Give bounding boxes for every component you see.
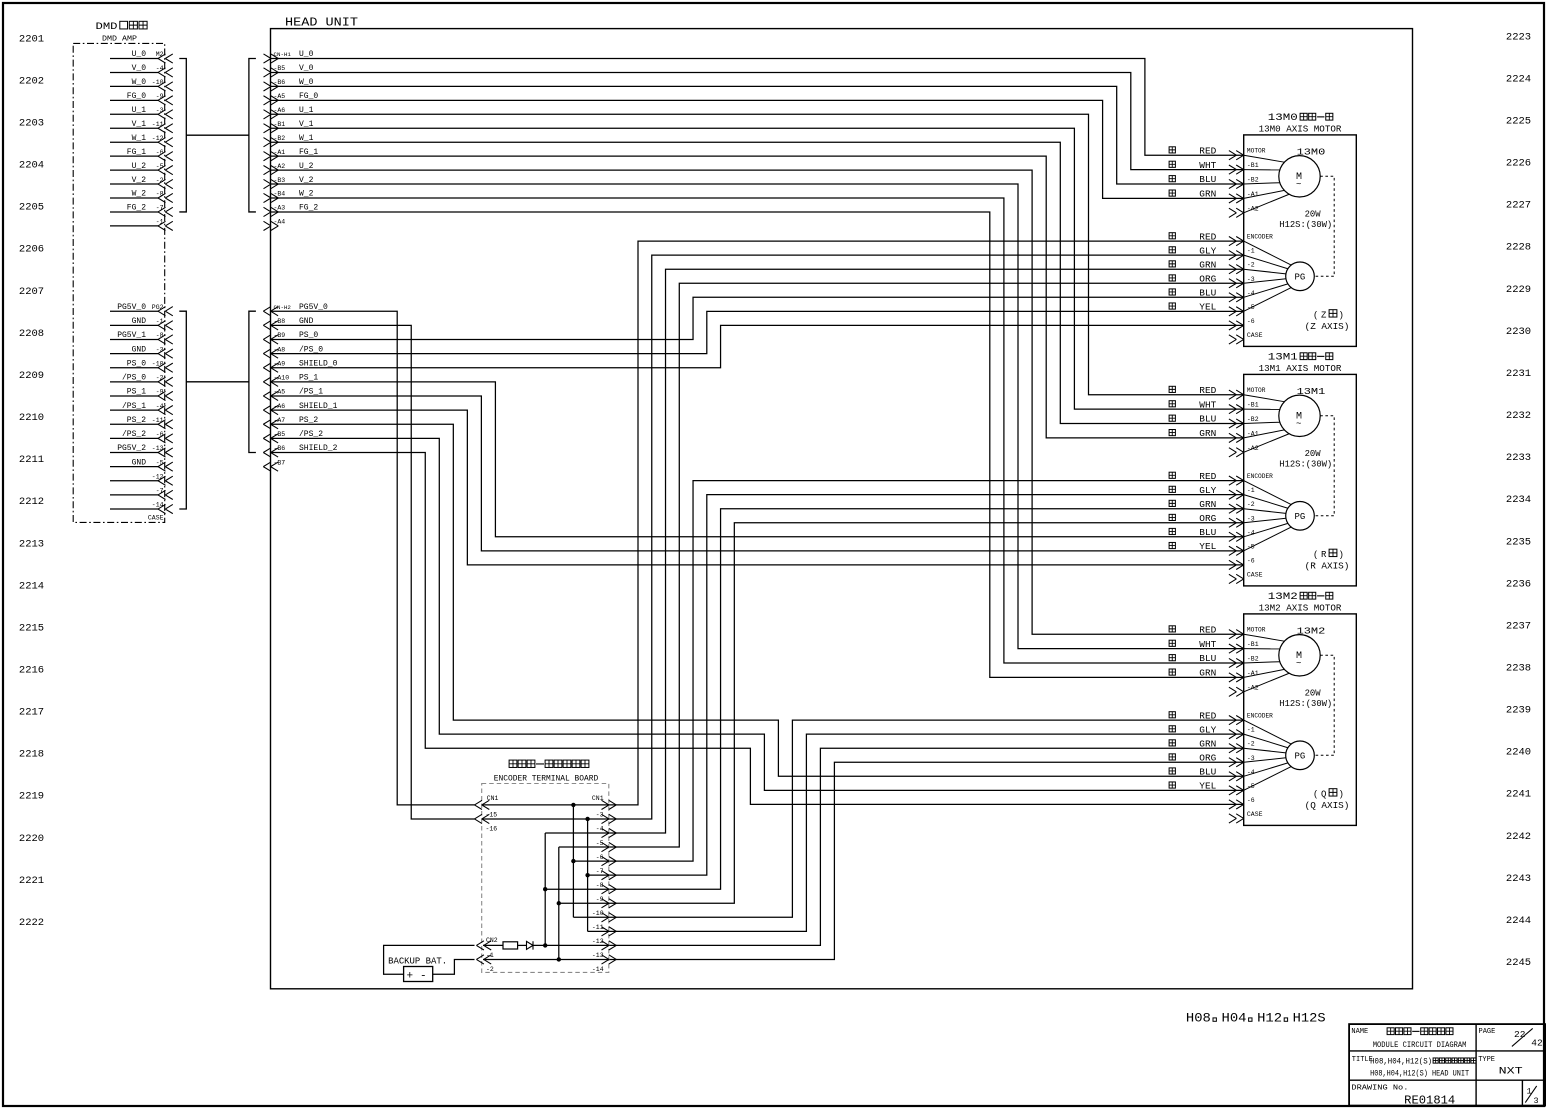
svg-text:W_1: W_1 (299, 134, 314, 143)
svg-text:GND: GND (132, 458, 147, 467)
svg-text:2213: 2213 (19, 538, 44, 550)
DMD AMP pin -14 signal nc wire (110, 508, 158, 510)
wire /PS_1 CN-H2 to motor 13M1 encoder (271, 396, 1244, 551)
svg-text:2204: 2204 (19, 160, 44, 172)
svg-text:-8: -8 (156, 191, 164, 198)
motor 13M2 pin -B1 link (1244, 648, 1280, 650)
wire W_2 CN-H1 to motor 13M2 pin row 2 (271, 198, 1244, 663)
encoder terminal board dashed box (482, 784, 609, 973)
svg-text:CN-H1: CN-H1 (274, 51, 292, 58)
CN-H1 pin -A5 chevron (271, 96, 279, 105)
svg-text:2216: 2216 (19, 665, 44, 677)
wire SHIELD_0 CN-H2 to motor 13M0 encoder (271, 325, 1244, 367)
svg-text:BLU: BLU (1199, 528, 1216, 538)
DMD AMP pin -7 signal nc wire (110, 494, 158, 496)
motor 13M0 encoder pin -5 link (1244, 288, 1292, 312)
svg-text:-13: -13 (152, 445, 164, 452)
svg-text:PG5V_0: PG5V_0 (299, 303, 328, 312)
motor 13M0 pin MOTOR chevron (1236, 151, 1244, 160)
motor 13M0 encoder color kanji 5 (1169, 303, 1175, 309)
motor 13M0 encoder pin -4 link (1244, 284, 1288, 297)
svg-text:PG2: PG2 (152, 304, 164, 311)
wire PG5V_0 CN-H2 to CN1 pin1 (271, 311, 475, 805)
svg-text:2207: 2207 (19, 286, 44, 298)
svg-text:13M2 AXIS MOTOR: 13M2 AXIS MOTOR (1259, 602, 1342, 613)
DMD AMP pin -5 signal GND wire (110, 466, 158, 468)
wire PS_2 CN-H2 to motor 13M2 encoder (271, 424, 1244, 776)
battery negative wire (433, 959, 475, 974)
svg-text:W_0: W_0 (132, 78, 147, 87)
motor 13M2 encoder color kanji 5 (1169, 782, 1175, 788)
DMD AMP pin -2 signal /PS_0 wire (110, 381, 158, 383)
board row -11 internal (588, 930, 609, 932)
svg-text:2236: 2236 (1506, 578, 1531, 590)
svg-text:2241: 2241 (1506, 789, 1531, 801)
svg-text:ORG: ORG (1199, 753, 1216, 763)
svg-text:2228: 2228 (1506, 242, 1531, 254)
svg-text:-7: -7 (156, 205, 164, 212)
svg-text:RED: RED (1199, 711, 1216, 721)
svg-text:2235: 2235 (1506, 536, 1531, 548)
motor 13M2 wire color kanji 0 (1169, 626, 1175, 632)
svg-text:PS_1: PS_1 (127, 388, 146, 397)
svg-text:): ) (1339, 550, 1344, 560)
board row -6 internal (573, 860, 609, 862)
board row -9 internal (559, 902, 609, 904)
DMD AMP pin -6 signal FG_1 wire (110, 155, 158, 157)
svg-text:-A8: -A8 (274, 346, 286, 353)
motor 13M1 encoder pin -6 chevron (1236, 560, 1244, 569)
wire PS_0 CN-H2 to motor 13M0 encoder (271, 297, 1244, 339)
CN-H2 pin -A10 chevron (263, 377, 271, 386)
svg-text:W_2: W_2 (132, 190, 147, 199)
battery positive wire (384, 945, 475, 974)
motor 13M2 encoder pin -4 chevron (1236, 772, 1244, 781)
svg-text:V_0: V_0 (132, 64, 147, 73)
svg-text:20W: 20W (1305, 689, 1322, 699)
svg-text:-10: -10 (152, 79, 164, 86)
svg-text:U_1: U_1 (299, 106, 314, 115)
svg-text:V_1: V_1 (132, 120, 147, 129)
svg-text:W_1: W_1 (132, 134, 147, 143)
svg-text:YEL: YEL (1199, 303, 1216, 313)
motor 13M0 encoder pin -1 link (1244, 255, 1288, 269)
svg-text:13M2: 13M2 (1297, 625, 1326, 636)
svg-text:GLY: GLY (1199, 486, 1217, 496)
svg-text:(: ( (1313, 550, 1318, 560)
CN2 row bat+ wire seg1 (483, 944, 503, 946)
motor 13M1 encoder pin -3 chevron (1236, 518, 1244, 527)
svg-text:TYPE: TYPE (1478, 1056, 1495, 1064)
svg-text:-8: -8 (596, 882, 604, 889)
motor 13M2 pin -A2 link (1244, 673, 1289, 692)
svg-text:MODULE CIRCUIT DIAGRAM: MODULE CIRCUIT DIAGRAM (1373, 1041, 1467, 1050)
cable bracket DMD side group1 (179, 59, 186, 212)
motor 13M0 pin MOTOR link (1244, 155, 1285, 162)
wire FG_1 CN-H1 to motor 13M1 pin row 3 (271, 156, 1244, 438)
board vertical 5V column (572, 805, 574, 917)
CN1 right pin -11 chevron (609, 927, 617, 936)
wire CN1 pin0 to motor 13M0 encoder row 0 (609, 241, 1244, 805)
motor 13M0 M-PG dashed link (1314, 176, 1334, 276)
motor 13M2 pin -B2 chevron (1236, 658, 1244, 667)
motor 13M1 encoder color kanji 0 (1169, 472, 1175, 478)
svg-text:): ) (1339, 790, 1344, 800)
wire U_2 CN-H1 to motor 13M2 pin row 0 (271, 170, 1244, 634)
junction J1 (543, 887, 547, 891)
CN-H1 pin -A6 chevron (271, 110, 279, 119)
svg-text:/PS_2: /PS_2 (299, 430, 323, 439)
motor 13M1 encoder pin -3 link (1244, 518, 1286, 522)
svg-text:GRN: GRN (1199, 739, 1216, 749)
svg-text:-A3: -A3 (274, 205, 286, 212)
CN-H1 pin -B3 chevron (271, 179, 279, 188)
wire SHIELD_1 CN-H2 to motor 13M1 encoder (271, 410, 1244, 565)
wire FG_0 CN-H1 to motor 13M0 pin row 3 (271, 100, 1244, 198)
svg-text:-B1: -B1 (1247, 641, 1259, 648)
svg-text:3: 3 (1534, 1096, 1539, 1106)
svg-text:NAME: NAME (1351, 1028, 1368, 1036)
svg-text:2211: 2211 (19, 454, 44, 466)
svg-text:2214: 2214 (19, 580, 44, 592)
svg-text:CASE: CASE (148, 515, 164, 522)
svg-text:-6: -6 (1247, 318, 1255, 325)
svg-text:BACKUP BAT.: BACKUP BAT. (388, 957, 447, 967)
svg-text:2220: 2220 (19, 833, 44, 845)
motor 13M0 encoder pin CASE chevron (1236, 335, 1244, 344)
motor 13M1 encoder pin -1 chevron (1236, 490, 1244, 499)
svg-text:H12S: H12S (1293, 1010, 1326, 1025)
wire CN1 pin8 to motor 13M2 encoder row 0 (609, 720, 1244, 917)
svg-text:V_0: V_0 (299, 64, 314, 73)
motor 13M2 encoder pin -5 chevron (1236, 786, 1244, 795)
svg-text:U_0: U_0 (132, 50, 147, 59)
DMD AMP pin -13 signal PG5V_2 wire (110, 452, 158, 454)
resistor R1 (503, 942, 518, 949)
motor 13M2 encoder pin -1 link (1244, 734, 1288, 748)
board vertical bat- column (558, 847, 560, 959)
motor 13M2 pin -A1 link (1244, 669, 1285, 677)
svg-text:2223: 2223 (1506, 31, 1531, 43)
DMD AMP pin -12 signal nc wire (110, 480, 158, 482)
svg-text:-B8: -B8 (274, 318, 286, 325)
motor 13M1 encoder pin -1 link (1244, 495, 1288, 509)
CN1 right pin -3 chevron (609, 814, 617, 823)
svg-text:-4: -4 (156, 403, 164, 410)
svg-text:-9: -9 (156, 389, 164, 396)
CN1 left pin1 chevron (475, 800, 483, 809)
encoder terminal board title (Japanese) (509, 760, 517, 767)
svg-text:BLU: BLU (1199, 654, 1216, 664)
DMD AMP pin -1 wire (110, 225, 158, 227)
svg-text:V_2: V_2 (132, 176, 147, 185)
svg-text:-14: -14 (152, 502, 164, 509)
svg-text:13M1: 13M1 (1297, 386, 1326, 397)
motor 13M0 pin -A2 chevron (1236, 208, 1244, 217)
svg-text:13M1: 13M1 (1268, 351, 1298, 363)
DMD AMP pin -3 signal U_1 wire (110, 113, 158, 115)
svg-text:-A1: -A1 (274, 149, 286, 156)
CN-H2 pin CN-H2 chevron (263, 307, 271, 316)
svg-text:MOTOR: MOTOR (1247, 148, 1266, 155)
svg-text:U_0: U_0 (299, 50, 314, 59)
svg-text:-10: -10 (152, 360, 164, 367)
DMD AMP pin -9 signal PS_1 wire (110, 395, 158, 397)
svg-text:FG_2: FG_2 (299, 204, 318, 213)
motor 13M2 encoder pin -6 chevron (1236, 800, 1244, 809)
svg-text:H08,H04,H12(S) HEAD UNIT: H08,H04,H12(S) HEAD UNIT (1370, 1070, 1469, 1079)
CN-H2 pin -B5 chevron (263, 434, 271, 443)
svg-text:-4: -4 (156, 65, 164, 72)
motor 13M1 pin -A1 chevron (1236, 433, 1244, 442)
motor 13M0 wire color kanji 2 (1169, 176, 1175, 182)
diode D1 (527, 941, 534, 949)
CN-H1 pin -A2 chevron (271, 166, 279, 175)
svg-text:2234: 2234 (1506, 494, 1531, 506)
junction J8 (585, 873, 589, 877)
svg-text:R: R (1321, 550, 1327, 560)
motor 13M0 box (1244, 135, 1357, 347)
svg-text:ENCODER TERMINAL BOARD: ENCODER TERMINAL BOARD (494, 775, 599, 784)
CN-H1 pin -B2 chevron (271, 138, 279, 147)
svg-text:FG_2: FG_2 (127, 204, 146, 213)
svg-text:(: ( (1313, 311, 1318, 321)
svg-text:-1: -1 (1247, 248, 1255, 255)
svg-text:PS_2: PS_2 (299, 416, 318, 425)
motor 13M0 encoder pin -5 chevron (1236, 307, 1244, 316)
board vertical GND column (587, 819, 589, 931)
svg-text:-7: -7 (596, 868, 604, 875)
svg-text:M2: M2 (156, 51, 164, 58)
CN2 pin1 chevron (476, 941, 484, 950)
motor 13M1 wire color kanji 1 (1169, 401, 1175, 407)
svg-text:-B2: -B2 (1247, 416, 1259, 423)
svg-text:-5: -5 (156, 459, 164, 466)
CN2 row bat- wire (483, 958, 609, 960)
svg-text:42: 42 (1531, 1038, 1543, 1049)
CN1 right pin -13 chevron (609, 955, 617, 964)
motor 13M2 encoder color kanji 1 (1169, 726, 1175, 732)
wire U_1 CN-H1 to motor 13M1 pin row 0 (271, 114, 1244, 394)
svg-text:/PS_0: /PS_0 (299, 345, 323, 354)
svg-text:-9: -9 (596, 896, 604, 903)
CN-H2 pin -A9 chevron (263, 363, 271, 372)
motor 13M1 encoder color kanji 5 (1169, 542, 1175, 548)
svg-text:DRAWING No.: DRAWING No. (1351, 1085, 1408, 1093)
svg-text:U_2: U_2 (299, 162, 314, 171)
motor 13M2 encoder color kanji 4 (1169, 768, 1175, 774)
svg-text:2242: 2242 (1506, 831, 1531, 843)
svg-text:(: ( (1313, 790, 1318, 800)
svg-text:2209: 2209 (19, 370, 44, 382)
board row -8 internal (545, 888, 609, 890)
backup battery box (404, 967, 433, 982)
svg-text:-A6: -A6 (274, 107, 286, 114)
svg-text:PG5V_2: PG5V_2 (117, 444, 146, 453)
wire CN1 pin5 to motor 13M1 encoder row 1 (609, 495, 1244, 876)
svg-text:-B2: -B2 (1247, 656, 1259, 663)
svg-text:-A5: -A5 (274, 389, 286, 396)
motor 13M0 encoder pin -3 chevron (1236, 279, 1244, 288)
motor 13M0 encoder pin -1 chevron (1236, 251, 1244, 260)
motor 13M0 pin -B1 chevron (1236, 165, 1244, 174)
svg-text:BLU: BLU (1199, 415, 1216, 425)
motor 13M1 encoder pin -2 link (1244, 509, 1286, 514)
DMD AMP dashed box (73, 43, 165, 522)
motor 13M0 encoder pin -2 link (1244, 269, 1286, 274)
svg-text:H12S:(30W): H12S:(30W) (1279, 699, 1332, 709)
svg-text:-1: -1 (156, 219, 164, 226)
svg-text:/PS_2: /PS_2 (122, 430, 146, 439)
motor 13M1 encoder pin -5 chevron (1236, 546, 1244, 555)
svg-text:ORG: ORG (1199, 274, 1216, 284)
svg-text:2210: 2210 (19, 412, 44, 424)
svg-text:-A2: -A2 (274, 163, 286, 170)
board vertical bat+ column (544, 833, 546, 945)
svg-text:-4: -4 (596, 826, 604, 833)
motor 13M2 wire color kanji 1 (1169, 640, 1175, 646)
motor 13M0 wire color kanji 1 (1169, 161, 1175, 167)
DMD AMP pin M2 signal U_0 wire (110, 58, 158, 60)
svg-text:H04: H04 (1222, 1010, 1247, 1025)
motor 13M2 encoder pin ENCODER chevron (1236, 716, 1244, 725)
svg-text:2215: 2215 (19, 622, 44, 634)
wire V_2 CN-H1 to motor 13M2 pin row 1 (271, 184, 1244, 649)
motor 13M2 encoder pin -5 link (1244, 767, 1292, 791)
svg-text:2233: 2233 (1506, 452, 1531, 464)
svg-text:-3: -3 (156, 346, 164, 353)
motor 13M2 encoder pin -2 link (1244, 748, 1286, 753)
svg-text:(Q AXIS): (Q AXIS) (1305, 801, 1350, 811)
svg-text:2229: 2229 (1506, 284, 1531, 296)
svg-text:-6: -6 (596, 854, 604, 861)
motor 13M0 encoder color kanji 0 (1169, 233, 1175, 239)
svg-text:CN-H2: CN-H2 (274, 304, 292, 311)
DMD AMP pin -12 signal W_1 wire (110, 141, 158, 143)
svg-text:U_2: U_2 (132, 162, 147, 171)
CN-H2 pin -B9 chevron (263, 335, 271, 344)
svg-text:RE01814: RE01814 (1404, 1095, 1455, 1108)
motor 13M0 pin -B2 chevron (1236, 179, 1244, 188)
wire W_1 CN-H1 to motor 13M1 pin row 2 (271, 142, 1244, 423)
svg-text:2240: 2240 (1506, 747, 1531, 759)
motor 13M2 pin -B1 chevron (1236, 644, 1244, 653)
svg-text:~: ~ (1296, 419, 1301, 429)
svg-text:PG: PG (1295, 512, 1306, 522)
motor 13M1 encoder pin ENCODER chevron (1236, 476, 1244, 485)
title block name (Japanese) (1387, 1028, 1394, 1035)
title block col line (1475, 1024, 1477, 1106)
board net 5V through row (482, 804, 609, 806)
wire CN1 pin2 to motor 13M0 encoder row 2 (609, 269, 1244, 833)
svg-text:H08,H04,H12(S): H08,H04,H12(S) (1370, 1058, 1432, 1067)
svg-text:/PS_1: /PS_1 (299, 388, 323, 397)
svg-text:-2: -2 (1247, 501, 1255, 508)
svg-text:-12: -12 (152, 135, 164, 142)
svg-text:CASE: CASE (1247, 811, 1263, 818)
svg-text:2202: 2202 (19, 75, 44, 87)
svg-text:-16: -16 (486, 826, 498, 833)
svg-text:ENCODER: ENCODER (1247, 473, 1273, 480)
junction J5 (571, 803, 575, 807)
CN2 pin -1 chevron (476, 955, 484, 964)
svg-text:GRN: GRN (1199, 260, 1216, 270)
svg-text:13M2: 13M2 (1268, 591, 1298, 603)
svg-text:-3: -3 (156, 107, 164, 114)
motor 13M2 encoder pin -2 chevron (1236, 744, 1244, 753)
motor 13M2 pin -B2 link (1244, 662, 1280, 663)
svg-text:PS_0: PS_0 (127, 359, 146, 368)
svg-text:~: ~ (1296, 179, 1301, 189)
svg-text:2245: 2245 (1506, 957, 1531, 969)
svg-text:H12: H12 (1257, 1010, 1282, 1025)
motor 13M1 encoder pin -5 link (1244, 527, 1292, 551)
junction J7 (585, 817, 589, 821)
DMD AMP pin -10 signal W_0 wire (110, 85, 158, 87)
svg-text:GRN: GRN (1199, 429, 1216, 439)
svg-text:PG: PG (1295, 751, 1306, 761)
svg-text:WHT: WHT (1199, 640, 1217, 650)
wire CN1 pin11 to motor 13M2 encoder row 3 (609, 762, 1244, 959)
svg-text:CASE: CASE (1247, 571, 1263, 578)
svg-text:-6: -6 (1247, 557, 1255, 564)
svg-text:2238: 2238 (1506, 663, 1531, 675)
motor 13M1 box (1244, 374, 1357, 586)
CN-H1 pin -B6 chevron (271, 82, 279, 91)
motor 13M2 pin MOTOR link (1244, 634, 1285, 641)
cable bracket DMD side group2 (179, 311, 186, 509)
CN-H1 pin -B1 chevron (271, 124, 279, 133)
motor 13M1 wire color kanji 2 (1169, 415, 1175, 421)
svg-text:U_1: U_1 (132, 106, 147, 115)
svg-text:SHIELD_1: SHIELD_1 (299, 402, 338, 411)
svg-text:FG_1: FG_1 (127, 148, 146, 157)
motor 13M1 encoder pin -4 chevron (1236, 532, 1244, 541)
CN1 right pin -8 chevron (609, 885, 617, 894)
DMD AMP pin -4 signal /PS_1 wire (110, 409, 158, 411)
svg-text:RED: RED (1199, 386, 1216, 396)
svg-text:2201: 2201 (19, 33, 44, 45)
svg-text:-B6: -B6 (274, 79, 286, 86)
svg-text:13M1 AXIS MOTOR: 13M1 AXIS MOTOR (1259, 363, 1342, 374)
junction J4 (557, 957, 561, 961)
svg-text:+: + (407, 971, 414, 983)
motor 13M2 encoder pin ENCODER link (1244, 720, 1292, 744)
wire CN1 pin9 to motor 13M2 encoder row 1 (609, 734, 1244, 931)
svg-text:H12S:(30W): H12S:(30W) (1279, 220, 1332, 230)
motor 13M0 encoder pin -6 chevron (1236, 321, 1244, 330)
motor 13M1 wire color kanji 3 (1169, 430, 1175, 436)
svg-text:-2: -2 (156, 375, 164, 382)
junction J3 (557, 901, 561, 905)
motor 13M2 PG circle (1286, 741, 1315, 770)
svg-text:BLU: BLU (1199, 768, 1216, 778)
motor 13M0 pin -B2 link (1244, 183, 1280, 184)
motor 13M0 wire color kanji 3 (1169, 190, 1175, 196)
svg-text:GND: GND (299, 317, 314, 326)
svg-text:BLU: BLU (1199, 175, 1216, 185)
DMD AMP pin -1 signal GND wire (110, 324, 158, 326)
cable link line group2 (186, 381, 249, 383)
svg-text:H08: H08 (1186, 1010, 1211, 1025)
wire V_0 CN-H1 to motor 13M0 pin row 1 (271, 72, 1244, 169)
board row -5 internal (559, 846, 609, 848)
svg-text:-2: -2 (156, 177, 164, 184)
CN-H1 pin CN-H1 chevron (271, 54, 279, 63)
DMD AMP pin -3 signal GND wire (110, 353, 158, 355)
CN1 right pin -7 chevron (609, 871, 617, 880)
CN-H1 pin -B5 chevron (271, 68, 279, 77)
